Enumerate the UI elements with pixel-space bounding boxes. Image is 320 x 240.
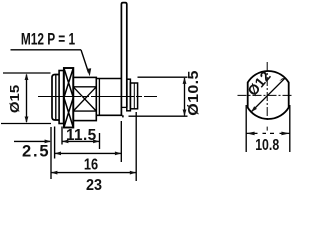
- text phi10.5: [186, 70, 202, 116]
- stub below shank: [122, 115, 124, 117]
- text 2.5: [22, 143, 50, 161]
- nut cross hatch: [64, 68, 73, 128]
- dim line phi12 diagonal: [251, 78, 284, 111]
- extension line 16-left: [54, 127, 56, 159]
- svg-text:M12 P = 1: M12 P = 1: [21, 31, 75, 49]
- dim phi15 bottom extension: [1, 123, 51, 125]
- threaded section: [73, 77, 96, 120]
- head cap: [52, 75, 59, 121]
- svg-text:Ø10.5: Ø10.5: [186, 70, 202, 116]
- text 10.8: [255, 137, 279, 155]
- thread inner lines: [73, 86, 96, 88]
- extension line 16-right: [120, 121, 122, 162]
- rear view double-D profile: [248, 71, 289, 119]
- dim 10.8 line: [246, 132, 290, 134]
- leader underline M12: [11, 49, 82, 51]
- extension line 23-right: [135, 112, 137, 181]
- dim line phi15: [26, 75, 28, 123]
- rear nut facet line: [133, 83, 135, 109]
- svg-text:23: 23: [86, 176, 102, 190]
- dim phi10.5 top extension: [138, 76, 188, 78]
- rear view vertical centerline: [266, 62, 268, 122]
- dim 2.5 line: [14, 140, 50, 142]
- flange: [59, 71, 64, 124]
- rear nut: [130, 83, 137, 109]
- svg-text:10.8: 10.8: [255, 137, 279, 155]
- text phi12: [245, 69, 275, 100]
- shank left line: [98, 79, 100, 116]
- thread cross: [73, 87, 96, 111]
- svg-text:Ø15: Ø15: [7, 85, 22, 113]
- text 23: [86, 176, 102, 194]
- centerline stub below circle: [266, 127, 268, 131]
- leader arrow M12: [81, 50, 89, 73]
- dim 10.8 left extension: [245, 105, 247, 152]
- dim 16 line: [55, 152, 122, 154]
- dim phi10.5 bottom extension: [129, 115, 188, 117]
- text phi15: [7, 85, 22, 113]
- text 11.5: [66, 127, 97, 144]
- dim 23 line: [51, 172, 136, 174]
- head cap inner line: [55, 75, 57, 121]
- nut (sectioned): [64, 68, 73, 128]
- dim line phi10.5: [184, 78, 186, 115]
- centerline main view: [38, 96, 157, 98]
- text 16: [84, 156, 98, 174]
- cam bottom edge: [121, 106, 126, 108]
- svg-text:2.5: 2.5: [22, 143, 50, 161]
- svg-text:16: 16: [84, 156, 98, 174]
- cam plate: [121, 3, 126, 116]
- rear view horizontal centerline: [238, 94, 294, 96]
- dim phi15 top extension: [3, 72, 51, 74]
- extension line 11.5-right: [99, 133, 101, 149]
- dim 11.5 line: [62, 140, 100, 142]
- label M12 P = 1: [21, 31, 75, 49]
- extension line 11.5-left: [61, 127, 63, 145]
- dim 10.8 right extension: [289, 105, 291, 152]
- svg-text:11.5: 11.5: [66, 127, 97, 144]
- washer behind cam: [127, 79, 131, 111]
- shank section: [96, 79, 122, 116]
- extension line head-left: [50, 127, 52, 179]
